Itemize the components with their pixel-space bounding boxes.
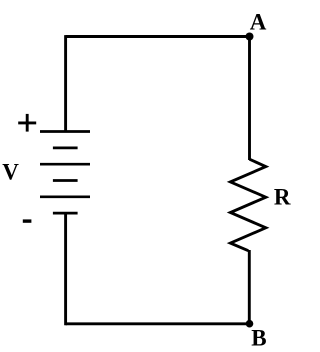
svg-text:V: V (2, 160, 19, 185)
node B (246, 320, 254, 328)
wire bottom (66, 322, 250, 325)
wire left lower (64, 213, 67, 325)
wire right upper (248, 36, 251, 160)
svg-text:B: B (251, 325, 266, 350)
battery V plate 5 long (40, 195, 90, 198)
wire top (66, 35, 250, 38)
label + (18, 114, 36, 132)
wire right lower (248, 250, 251, 324)
node A (246, 33, 254, 41)
battery V plate 4 short (53, 179, 78, 182)
battery V plate 6 short (-) (53, 212, 78, 215)
svg-text:A: A (250, 10, 267, 35)
battery V plate 3 long (40, 163, 90, 166)
battery V plate 1 long (+) (40, 130, 90, 133)
battery V plate 2 short (53, 147, 78, 150)
resistor R (230, 159, 265, 251)
label - (23, 219, 32, 222)
svg-text:R: R (274, 184, 291, 209)
wire left upper (64, 35, 67, 131)
